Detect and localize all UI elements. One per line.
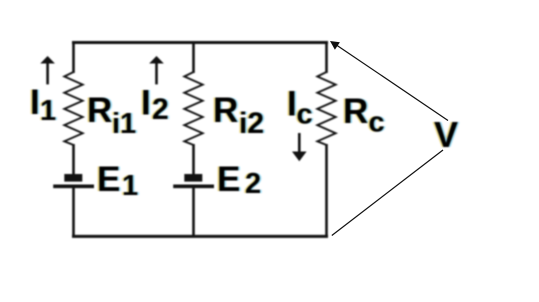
resistor R_i2 zigzag xyxy=(184,72,202,145)
wire bottom rail xyxy=(72,235,328,238)
label E1 xyxy=(95,160,140,202)
current arrow Ic (down) xyxy=(292,133,307,161)
label I2 xyxy=(139,84,170,127)
wire left branch bottom segment xyxy=(72,188,75,237)
wire left branch top segment xyxy=(72,41,75,73)
label I1 xyxy=(28,83,58,127)
resistor R_i1 zigzag xyxy=(64,72,82,145)
V pointer line to top-right corner with arrowhead xyxy=(330,41,448,121)
battery E1 short thick plate xyxy=(64,174,82,182)
battery E2 long thin plate xyxy=(173,185,214,189)
wire middle branch top segment xyxy=(192,41,195,73)
V pointer line to bottom-right corner xyxy=(332,150,443,236)
wire left branch between resistor and battery xyxy=(72,144,75,175)
label Ri2 xyxy=(211,91,266,140)
battery E1 long thin plate xyxy=(53,185,94,189)
wire top rail xyxy=(72,41,328,44)
label E2 xyxy=(215,160,263,200)
current arrow I1 xyxy=(40,56,55,84)
wire middle branch bottom segment xyxy=(192,188,195,237)
label Ri1 xyxy=(85,91,138,140)
battery E2 short thick plate xyxy=(184,174,202,182)
label Ic xyxy=(285,85,314,131)
current arrow I2 xyxy=(149,56,164,84)
wire right branch top segment xyxy=(325,41,328,73)
wire right branch bottom segment xyxy=(325,144,328,237)
wire middle branch between resistor and battery xyxy=(192,144,195,175)
label Rc xyxy=(341,92,386,139)
resistor Rc zigzag xyxy=(317,72,335,145)
